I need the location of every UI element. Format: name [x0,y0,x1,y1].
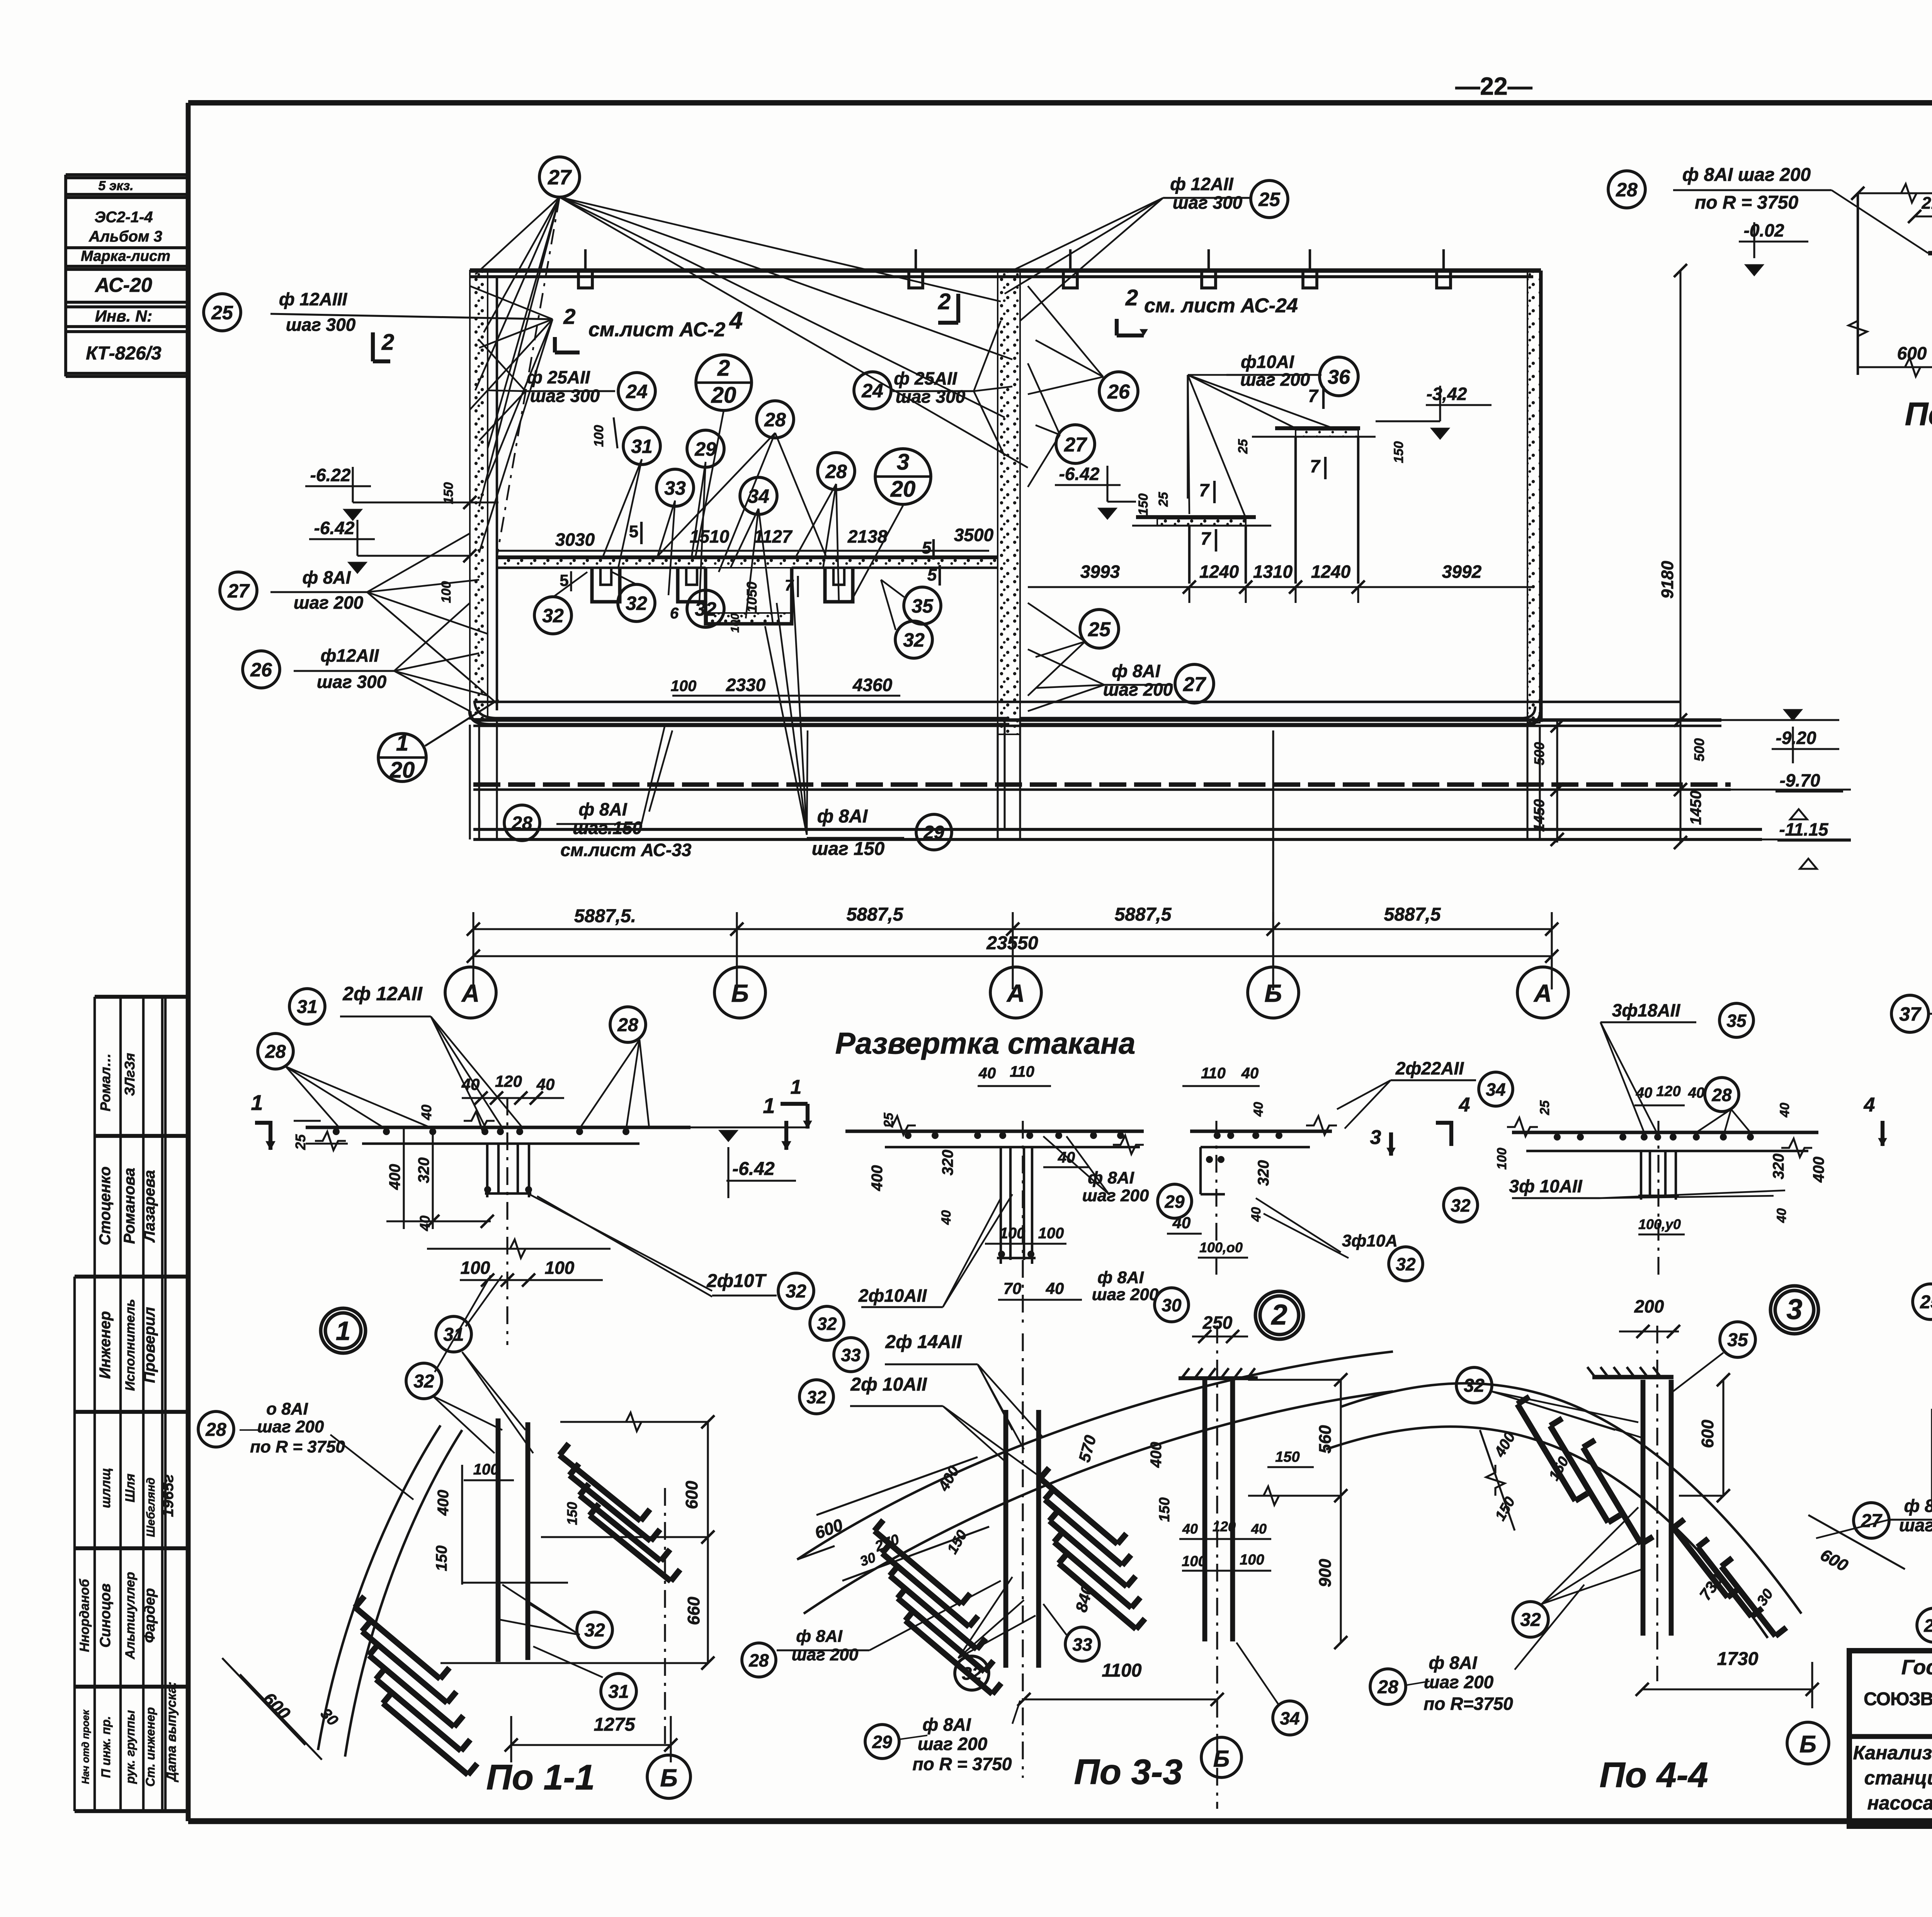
svg-text:шаг 200: шаг 200 [1424,1672,1494,1692]
svg-text:40: 40 [1636,1085,1652,1101]
svg-text:1310: 1310 [1253,562,1293,582]
svg-text:40: 40 [1251,1102,1266,1117]
svg-text:1: 1 [396,730,408,756]
svg-text:1: 1 [791,1076,802,1098]
svg-text:3992: 3992 [1442,562,1482,582]
svg-text:35: 35 [1727,1330,1748,1350]
svg-text:1127: 1127 [754,526,793,546]
svg-text:27: 27 [1183,673,1206,696]
svg-text:о 8АI: о 8АI [266,1399,308,1418]
svg-text:см.лист АС-33: см.лист АС-33 [560,840,691,860]
svg-text:5: 5 [922,538,932,557]
svg-text:40: 40 [1249,1207,1264,1222]
svg-text:100,о0: 100,о0 [1199,1239,1243,1255]
svg-text:1275: 1275 [594,1714,636,1735]
svg-text:100: 100 [729,613,742,633]
svg-text:1450: 1450 [1531,799,1548,832]
svg-text:3ф18АII: 3ф18АII [1612,1000,1680,1020]
svg-text:25: 25 [211,302,233,323]
svg-text:27: 27 [1861,1511,1883,1531]
svg-text:32: 32 [413,1371,434,1392]
svg-text:320: 320 [939,1150,956,1176]
svg-text:31: 31 [631,436,653,457]
svg-text:40: 40 [1777,1103,1792,1118]
svg-text:шаг 200: шаг 200 [257,1417,324,1436]
svg-text:100: 100 [545,1258,575,1278]
svg-text:ф12АII: ф12АII [321,645,379,666]
svg-text:150: 150 [1275,1449,1299,1465]
svg-text:3500: 3500 [954,525,994,545]
svg-text:27: 27 [227,580,250,602]
svg-text:ф 8АI шаг 200: ф 8АI шаг 200 [1682,165,1811,185]
svg-text:28: 28 [764,409,786,431]
svg-text:6: 6 [670,605,679,622]
svg-text:Ннорданоб: Ннорданоб [77,1579,92,1652]
svg-text:по R = 3750: по R = 3750 [913,1754,1012,1774]
svg-text:33: 33 [1072,1634,1092,1655]
svg-text:32: 32 [903,629,925,651]
svg-text:Альтшуллер: Альтшуллер [123,1572,138,1660]
svg-text:32: 32 [786,1281,806,1302]
svg-text:Синоцов: Синоцов [97,1583,114,1648]
svg-text:СОЮЗВОДОКАНАЛПРОЕКТ: СОЮЗВОДОКАНАЛПРОЕКТ [1864,1689,1932,1709]
svg-text:26: 26 [250,659,272,681]
svg-text:100,у0: 100,у0 [1638,1216,1681,1232]
svg-text:ф 12АIII: ф 12АIII [279,289,347,309]
svg-text:32: 32 [962,1663,982,1684]
svg-text:28: 28 [617,1015,638,1035]
svg-text:35: 35 [912,595,934,617]
svg-text:по R = 3750: по R = 3750 [250,1437,345,1456]
svg-text:29: 29 [694,438,716,460]
svg-text:320: 320 [415,1158,432,1183]
svg-text:Проверил: Проверил [141,1307,158,1383]
svg-text:4360: 4360 [852,675,893,695]
svg-text:4: 4 [729,307,743,334]
svg-text:по R = 3750: по R = 3750 [1695,192,1798,213]
svg-text:150: 150 [1391,441,1406,463]
svg-text:3993: 3993 [1080,562,1120,582]
svg-text:4: 4 [1459,1094,1470,1116]
svg-text:100: 100 [461,1258,490,1278]
svg-text:Лазарева: Лазарева [141,1170,158,1243]
svg-text:24: 24 [861,380,883,402]
svg-text:600: 600 [1897,343,1927,363]
svg-text:АС-20: АС-20 [94,274,152,296]
svg-text:Исполнитель: Исполнитель [123,1299,138,1391]
svg-text:500: 500 [1691,738,1707,761]
svg-text:-6.42: -6.42 [732,1159,775,1179]
svg-text:1: 1 [336,1316,350,1346]
svg-text:Ромал…: Ромал… [97,1053,113,1111]
svg-text:-6.22: -6.22 [310,465,351,485]
svg-text:28: 28 [825,461,847,482]
svg-text:100: 100 [473,1461,499,1478]
svg-text:900: 900 [1316,1559,1335,1587]
svg-text:2ф 12АII: 2ф 12АII [342,983,423,1004]
svg-text:ф10АI: ф10АI [1241,352,1294,372]
svg-text:25: 25 [293,1134,308,1150]
svg-text:-11.15: -11.15 [1779,819,1828,839]
svg-text:ф 8АI: ф 8АI [1088,1168,1134,1187]
svg-text:3ф10А: 3ф10А [1342,1231,1398,1250]
svg-text:600: 600 [682,1481,701,1509]
svg-text:20: 20 [890,477,916,502]
svg-text:150: 150 [1136,494,1151,516]
svg-text:шаг 300: шаг 300 [1173,192,1243,213]
svg-text:ф 8АI: ф 8АI [1904,1496,1932,1516]
svg-text:7: 7 [1199,480,1210,500]
svg-text:7: 7 [1308,386,1319,406]
svg-text:400: 400 [435,1490,452,1516]
svg-text:2: 2 [563,304,575,329]
svg-text:36: 36 [1328,366,1350,388]
svg-text:150: 150 [564,1502,580,1525]
svg-text:А: А [461,979,480,1007]
svg-text:шаг 300: шаг 300 [317,672,387,692]
svg-text:шаг 300: шаг 300 [896,386,966,407]
svg-text:26: 26 [1107,381,1130,403]
svg-text:120: 120 [1656,1083,1680,1100]
svg-text:ф 8АI: ф 8АI [796,1627,842,1646]
svg-text:2138: 2138 [847,526,888,546]
svg-text:Дата выпуска:: Дата выпуска: [164,1682,179,1783]
svg-text:шллщ: шллщ [99,1468,113,1508]
svg-text:28: 28 [205,1420,226,1440]
svg-text:27: 27 [548,166,572,189]
svg-text:Шебглянд: Шебглянд [145,1478,157,1537]
svg-text:-6.42: -6.42 [1059,464,1100,484]
svg-text:ф 8АI: ф 8АI [578,799,627,819]
svg-text:ф 25АII: ф 25АII [527,367,590,387]
svg-text:Б: Б [731,979,748,1007]
svg-text:33: 33 [664,477,686,499]
svg-text:-9.20: -9.20 [1776,728,1816,748]
svg-text:Инженер: Инженер [97,1311,114,1379]
svg-text:2ф 10АII: 2ф 10АII [850,1374,927,1395]
svg-text:см. лист АС-24: см. лист АС-24 [1144,295,1298,317]
svg-text:шаг.150: шаг.150 [573,818,642,838]
svg-text:24: 24 [626,381,648,402]
svg-text:100: 100 [1240,1552,1264,1568]
svg-text:шаг 200: шаг 200 [1899,1515,1932,1535]
svg-text:2: 2 [938,289,951,314]
svg-text:Б: Б [1264,979,1282,1007]
svg-text:32: 32 [695,598,716,620]
svg-text:2: 2 [381,330,394,355]
svg-text:По 3-3: По 3-3 [1074,1752,1183,1792]
svg-text:120: 120 [1213,1519,1236,1534]
svg-text:40: 40 [1182,1521,1198,1537]
svg-text:33: 33 [841,1345,861,1365]
svg-text:2: 2 [1125,285,1138,310]
svg-text:по R=3750: по R=3750 [1423,1694,1513,1714]
svg-text:2330: 2330 [726,675,766,695]
svg-text:шаг 200: шаг 200 [1082,1186,1149,1205]
svg-text:шаг 300: шаг 300 [286,315,356,335]
svg-text:5887,5: 5887,5 [1115,904,1172,925]
svg-text:32: 32 [1396,1254,1416,1274]
svg-text:Развертка стакана: Развертка стакана [835,1026,1136,1060]
svg-text:3ф 10АII: 3ф 10АII [1509,1176,1582,1196]
svg-text:ф 8АI: ф 8АI [1429,1653,1477,1673]
svg-text:400: 400 [1148,1442,1165,1468]
svg-text:5 экз.: 5 экз. [98,179,133,193]
svg-text:1: 1 [251,1090,263,1115]
svg-text:3: 3 [1370,1126,1381,1149]
svg-text:7: 7 [1201,528,1211,548]
svg-text:Марка-лист: Марка-лист [81,248,170,264]
svg-text:500: 500 [1531,742,1547,765]
svg-text:200: 200 [1634,1296,1664,1316]
svg-text:150: 150 [441,482,456,504]
svg-text:20: 20 [711,383,736,408]
svg-text:ф 12АII: ф 12АII [1170,174,1234,194]
svg-text:210: 210 [1921,194,1932,213]
svg-text:100: 100 [1182,1553,1206,1570]
svg-text:насосами 2½нФ или 4НФ: насосами 2½нФ или 4НФ [1867,1792,1932,1814]
svg-text:20: 20 [389,758,415,783]
svg-text:40: 40 [978,1065,996,1082]
svg-text:ф 25АII: ф 25АII [894,368,957,388]
svg-text:КТ-826/3: КТ-826/3 [86,343,162,364]
svg-text:25: 25 [1156,492,1171,507]
svg-text:5887,5: 5887,5 [1384,904,1441,925]
svg-text:34: 34 [1280,1708,1299,1728]
svg-text:2: 2 [717,356,730,381]
svg-text:По 4-4: По 4-4 [1600,1755,1708,1795]
svg-text:Б: Б [1213,1746,1230,1772]
svg-text:2: 2 [1270,1299,1287,1331]
svg-text:ф 8АI: ф 8АI [1097,1268,1144,1287]
svg-text:шаг 200: шаг 200 [1092,1285,1159,1304]
svg-text:100: 100 [1495,1148,1509,1170]
svg-text:600: 600 [1698,1420,1717,1448]
svg-text:28: 28 [1616,179,1638,201]
svg-text:шаг 200: шаг 200 [918,1734,988,1754]
svg-text:—22—: —22— [1455,72,1532,100]
svg-text:2ф10Т: 2ф10Т [706,1271,767,1291]
svg-text:ф 8АI: ф 8АI [302,567,351,587]
svg-text:29: 29 [872,1732,892,1752]
svg-text:23550: 23550 [986,933,1038,953]
svg-text:100: 100 [592,425,606,447]
svg-text:-6.42: -6.42 [314,518,355,538]
svg-text:7: 7 [1310,456,1321,476]
svg-text:28: 28 [1711,1085,1732,1105]
svg-text:110: 110 [1010,1063,1034,1080]
svg-text:25: 25 [881,1112,896,1128]
svg-text:Б: Б [1799,1731,1816,1758]
svg-text:32: 32 [626,592,647,614]
svg-text:40: 40 [418,1105,434,1120]
svg-text:-9.70: -9.70 [1780,770,1820,790]
svg-text:40: 40 [536,1075,555,1093]
svg-text:3: 3 [1786,1293,1802,1325]
svg-text:40: 40 [1241,1065,1259,1082]
svg-text:По 1-1: По 1-1 [486,1758,595,1797]
svg-text:40: 40 [1774,1208,1789,1223]
svg-text:Фардер: Фардер [142,1588,158,1643]
svg-text:560: 560 [1316,1425,1335,1454]
svg-text:шаг 300: шаг 300 [530,386,600,406]
svg-text:А: А [1006,979,1025,1007]
svg-text:35: 35 [1726,1011,1747,1031]
svg-text:40: 40 [939,1210,954,1225]
svg-text:25: 25 [1236,439,1250,454]
svg-text:30: 30 [1162,1295,1182,1315]
svg-text:400: 400 [869,1165,886,1192]
svg-text:31: 31 [608,1682,629,1702]
svg-text:Стоценко: Стоценко [97,1166,114,1245]
svg-text:25: 25 [1537,1100,1552,1115]
svg-text:320: 320 [1255,1160,1272,1186]
svg-text:Инв. N:: Инв. N: [95,307,153,325]
svg-text:29: 29 [923,822,944,843]
svg-text:34: 34 [748,485,769,507]
svg-text:Романова: Романова [121,1168,138,1244]
svg-text:32: 32 [1520,1610,1541,1630]
svg-text:см.лист АС-2: см.лист АС-2 [588,318,725,341]
svg-text:32: 32 [1464,1376,1485,1396]
svg-text:По 5-5: По 5-5 [1905,396,1932,432]
svg-text:32: 32 [817,1314,837,1334]
svg-text:40: 40 [1172,1214,1191,1232]
svg-text:Б: Б [660,1764,677,1792]
svg-text:5: 5 [629,522,638,541]
svg-text:150: 150 [433,1546,450,1571]
svg-text:1450: 1450 [1687,791,1704,825]
svg-text:3030: 3030 [555,529,595,550]
svg-text:ф 8АI: ф 8АI [1112,661,1160,681]
svg-text:320: 320 [1770,1154,1787,1180]
svg-text:5: 5 [927,565,937,584]
svg-text:5887,5: 5887,5 [847,904,904,925]
svg-text:70: 70 [1003,1279,1022,1297]
svg-text:ф 8АI: ф 8АI [922,1714,971,1735]
svg-text:1240: 1240 [1311,562,1351,582]
svg-text:32: 32 [806,1387,827,1407]
svg-text:32: 32 [1451,1195,1471,1216]
svg-text:31: 31 [443,1325,464,1345]
svg-text:ф 8АI: ф 8АI [817,806,868,827]
svg-text:100: 100 [1000,1225,1026,1242]
svg-text:рук. группы: рук. группы [123,1710,137,1784]
svg-text:25: 25 [1088,618,1111,641]
svg-text:25: 25 [1258,189,1281,210]
svg-text:Ст. инженер: Ст. инженер [143,1707,157,1787]
svg-text:31: 31 [297,997,317,1017]
svg-text:1: 1 [763,1093,775,1118]
svg-text:40: 40 [1046,1279,1064,1297]
svg-text:9180: 9180 [1658,561,1677,599]
svg-text:28: 28 [511,813,532,834]
svg-text:2ф10АII: 2ф10АII [858,1285,927,1306]
svg-text:150: 150 [1156,1497,1173,1522]
svg-text:400: 400 [1810,1157,1827,1183]
svg-text:400: 400 [386,1164,403,1190]
svg-text:3: 3 [897,449,909,475]
svg-text:А: А [1533,979,1552,1007]
svg-text:1730: 1730 [1717,1649,1759,1669]
svg-text:станция на 2 агрегата с: станция на 2 агрегата с [1864,1767,1932,1789]
svg-text:4: 4 [1864,1094,1875,1116]
svg-text:шаг 200: шаг 200 [792,1645,859,1664]
svg-text:-0.02: -0.02 [1744,220,1784,240]
svg-text:34: 34 [1486,1079,1505,1100]
svg-text:250: 250 [1202,1313,1233,1333]
svg-text:2ф22АII: 2ф22АII [1395,1058,1464,1078]
svg-text:Шля: Шля [123,1474,138,1502]
svg-text:660: 660 [684,1597,703,1625]
svg-text:ЭС2-1-4: ЭС2-1-4 [94,209,153,226]
svg-text:шаг 200: шаг 200 [294,592,364,613]
svg-text:П инж. пр.: П инж. пр. [99,1716,113,1778]
svg-text:40: 40 [1688,1085,1704,1101]
svg-text:1100: 1100 [1102,1660,1142,1681]
svg-text:шаг 200: шаг 200 [1103,679,1173,700]
svg-text:ЗЛгЗя: ЗЛгЗя [122,1053,138,1096]
svg-text:100: 100 [1038,1225,1064,1242]
svg-text:100: 100 [671,678,697,695]
svg-text:28: 28 [1377,1677,1398,1697]
svg-text:40: 40 [1251,1521,1267,1537]
svg-text:32: 32 [584,1620,605,1641]
svg-text:5887,5.: 5887,5. [574,906,636,926]
svg-text:25: 25 [1920,1292,1932,1313]
svg-text:28: 28 [748,1650,769,1670]
svg-text:110: 110 [1201,1065,1226,1082]
svg-text:27: 27 [1064,434,1087,456]
svg-text:шаг 200: шаг 200 [1240,369,1310,390]
svg-text:шаг 150: шаг 150 [812,839,885,859]
svg-text:37: 37 [1899,1003,1922,1025]
svg-text:Госстрой СССР: Госстрой СССР [1901,1656,1932,1679]
svg-text:Альбом 3: Альбом 3 [88,228,162,245]
svg-text:32: 32 [542,605,564,627]
svg-text:24: 24 [1923,1616,1932,1636]
svg-text:2ф 14АII: 2ф 14АII [885,1332,962,1352]
svg-text:Канализационная насосная: Канализационная насосная [1853,1742,1932,1764]
svg-text:Нач отд проек: Нач отд проек [80,1709,91,1784]
svg-text:29: 29 [1164,1192,1185,1212]
svg-text:1965г: 1965г [160,1474,177,1517]
svg-text:120: 120 [495,1072,522,1090]
svg-text:-3,42: -3,42 [1427,384,1467,404]
svg-text:1240: 1240 [1199,562,1239,582]
svg-text:28: 28 [265,1042,286,1062]
